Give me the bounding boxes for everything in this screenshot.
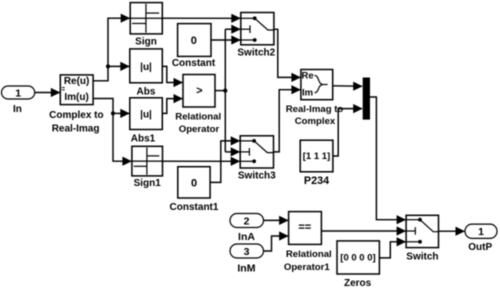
svg-text:1: 1 [478, 226, 484, 238]
block Switch3 [240, 136, 273, 168]
inport InA (2) [230, 214, 264, 228]
junction node Im branch [111, 111, 115, 115]
outport OutP (1) [465, 224, 497, 238]
block Constant1 value 0 [178, 167, 210, 198]
wire Abs to Relational Operator input1 [162, 66, 182, 82]
junction node Relational Operator output [223, 89, 227, 93]
svg-text:Complex: Complex [295, 116, 336, 127]
svg-text:Operator: Operator [179, 124, 220, 135]
svg-text:Re(u): Re(u) [64, 76, 90, 87]
svg-text:[0 0 0 0]: [0 0 0 0] [340, 252, 375, 263]
svg-text:Im: Im [302, 87, 313, 98]
svg-text:Abs1: Abs1 [131, 134, 156, 145]
block Sign1 [132, 146, 163, 176]
svg-text:1: 1 [15, 87, 21, 99]
svg-text:InA: InA [238, 231, 255, 243]
block Switch2 [241, 13, 274, 45]
svg-text:3: 3 [244, 246, 250, 258]
mux Mux1 (vertical bar) [363, 78, 370, 120]
svg-text:[1 1 1]: [1 1 1] [303, 151, 330, 162]
wire Sign1 to Switch3 input3 [163, 160, 240, 162]
wire Relational Operator1 to Switch input2 [321, 230, 405, 232]
block Zeros constant [0 0 0 0] [337, 241, 379, 274]
svg-text:Im(u): Im(u) [64, 92, 88, 103]
wire Constant to Switch2 input3 [211, 39, 240, 41]
wire P234 to Mux input2 [333, 109, 362, 156]
block Real-Imag to Complex U2 [301, 70, 333, 100]
svg-text:Constant: Constant [172, 58, 216, 69]
svg-text:Switch3: Switch3 [238, 171, 276, 182]
svg-text:Constant1: Constant1 [170, 202, 219, 213]
svg-text:InM: InM [237, 262, 255, 274]
svg-text:0: 0 [191, 35, 197, 47]
wire InM to Relational Operator1 input2 [264, 236, 288, 251]
wire InA to Relational Operator1 input1 [264, 219, 288, 221]
svg-text:Switch2: Switch2 [237, 47, 275, 58]
wire Switch to OutP [439, 230, 465, 232]
svg-text:Switch: Switch [406, 251, 438, 262]
svg-text:2: 2 [244, 215, 250, 227]
inport In (1) [2, 86, 35, 99]
svg-text:Zeros: Zeros [344, 278, 372, 288]
svg-text:|u|: |u| [140, 109, 152, 120]
svg-text:Relational: Relational [286, 249, 332, 260]
wire Constant1 to Switch3 input1 [210, 141, 239, 183]
svg-text:Operator1: Operator1 [284, 262, 331, 273]
wire Relational Operator out to Switch2 and Switch3 control inputs [215, 90, 225, 92]
svg-text:Sign1: Sign1 [134, 178, 162, 189]
wire Re(u) net: C2RI out1 up to Sign and branch to Abs [93, 18, 129, 81]
svg-text:Sign: Sign [135, 37, 157, 48]
svg-text:In: In [13, 104, 22, 115]
svg-text:Relational: Relational [175, 112, 221, 123]
svg-text:Re: Re [302, 71, 314, 82]
svg-text:|u|: |u| [140, 62, 152, 73]
svg-text:==: == [298, 222, 311, 234]
svg-text:0: 0 [191, 178, 197, 190]
wire In to Complex-to-Real-Imag [35, 92, 60, 94]
wire Zeros to Switch input3 [379, 242, 405, 258]
wire Sign to Switch2 input1 [162, 17, 240, 19]
block Complex to Real-Imag U1 [60, 75, 93, 105]
block Relational Operator comparator > [183, 75, 215, 108]
svg-text:Complex to: Complex to [49, 110, 103, 121]
wire Switch3 to Real-Imag-to-Complex Im input [274, 90, 301, 152]
block Sign [130, 3, 162, 34]
wire Im(u) net: C2RI out2 down to Sign1 and branch to Abs1 [93, 99, 131, 162]
block Abs1 [130, 98, 163, 130]
wire Switch2 to Real-Imag-to-Complex Re input [274, 29, 300, 77]
svg-text:Real-Imag to: Real-Imag to [286, 104, 344, 115]
svg-text:Abs: Abs [137, 87, 156, 98]
svg-text:Real-Imag: Real-Imag [52, 124, 100, 135]
block P234 constant [1 1 1] [300, 140, 333, 172]
inport InM (3) [230, 244, 264, 258]
wire Mux to Switch input1 [370, 97, 405, 220]
junction node Re branch [106, 64, 110, 68]
wire Real-Imag-to-Complex to Mux input1 [333, 85, 362, 87]
block Relational Operator1 comparator == [289, 212, 322, 245]
block Abs [130, 49, 163, 83]
svg-text:>: > [196, 85, 202, 97]
wire Abs1 to Relational Operator input2 [162, 99, 182, 114]
svg-text:OutP: OutP [468, 242, 492, 253]
svg-text:P234: P234 [304, 175, 329, 187]
block Switch [406, 215, 438, 247]
block Constant value 0 [178, 24, 211, 57]
